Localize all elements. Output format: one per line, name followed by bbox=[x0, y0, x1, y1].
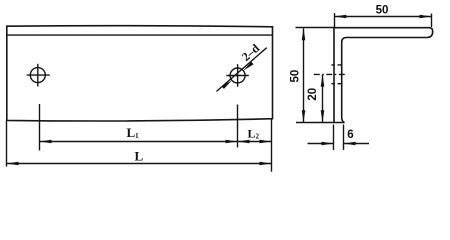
dimension L right arrow bbox=[260, 162, 272, 166]
dimension L1 left arrow bbox=[40, 140, 52, 144]
leader arrowhead lower bbox=[222, 80, 232, 89]
label 50 vertical bbox=[290, 70, 302, 83]
extension line hole H2 bbox=[237, 105, 239, 148]
dimension 50 top line bbox=[334, 16, 431, 18]
svg-text:L: L bbox=[135, 149, 144, 164]
dimension 50 top left arrow bbox=[334, 15, 346, 19]
front view plate outline bbox=[7, 26, 273, 121]
dimension 6 left line bbox=[308, 143, 334, 145]
dimension 6 right line bbox=[344, 143, 370, 145]
extension line top of side view bbox=[296, 27, 335, 29]
dimension 20 line bbox=[322, 75, 324, 122]
dimension 6 right arrow bbox=[344, 142, 356, 146]
extension line left edge bbox=[6, 120, 8, 166]
hidden hole edge lower bbox=[331, 83, 342, 85]
extension line hole H1 bbox=[39, 104, 41, 150]
svg-text:20: 20 bbox=[307, 88, 319, 101]
dimension L2 left arrow bbox=[238, 140, 250, 144]
extension line thickness left bbox=[333, 125, 335, 151]
svg-text:50: 50 bbox=[290, 70, 302, 83]
dimension L2 line bbox=[238, 141, 272, 143]
dimension 50 vertical bottom arrow bbox=[302, 110, 306, 122]
dimension 50 top right arrow bbox=[420, 15, 432, 19]
hole centerline side view bbox=[314, 73, 347, 75]
hole H1 circle bbox=[30, 68, 45, 83]
extension line top dim left bbox=[334, 13, 336, 27]
dimension 6 left arrow bbox=[322, 142, 334, 146]
extension line bottom of side view bbox=[296, 122, 344, 124]
bend edge line bbox=[7, 34, 273, 36]
dimension 20 bottom arrow bbox=[321, 110, 325, 122]
dimension 50 vertical line bbox=[303, 28, 305, 122]
hidden hole edge upper bbox=[331, 64, 342, 66]
label 20 bbox=[307, 88, 319, 101]
dimension 20 top arrow bbox=[321, 75, 325, 87]
dimension L line bbox=[7, 163, 272, 165]
label 2-d bbox=[239, 41, 263, 64]
hole H2 circle bbox=[230, 68, 245, 83]
dimension L2 right arrow bbox=[260, 140, 272, 144]
dimension L1 line bbox=[40, 141, 238, 143]
hole H2 centerlines bbox=[226, 64, 248, 87]
side view profile outline bbox=[334, 28, 433, 123]
svg-text:6: 6 bbox=[347, 129, 353, 141]
extension line right edge bbox=[271, 119, 273, 172]
leader arrowhead upper bbox=[243, 62, 253, 71]
extension line thickness right bbox=[343, 125, 345, 151]
hole H1 centerlines bbox=[27, 64, 50, 87]
dimension L left arrow bbox=[7, 162, 19, 166]
extension line top dim right bbox=[431, 14, 433, 28]
leader line 2-d bbox=[217, 48, 267, 92]
dimension 50 vertical top arrow bbox=[302, 28, 306, 40]
svg-text:50: 50 bbox=[376, 4, 389, 16]
dimension L1 right arrow bbox=[226, 140, 238, 144]
